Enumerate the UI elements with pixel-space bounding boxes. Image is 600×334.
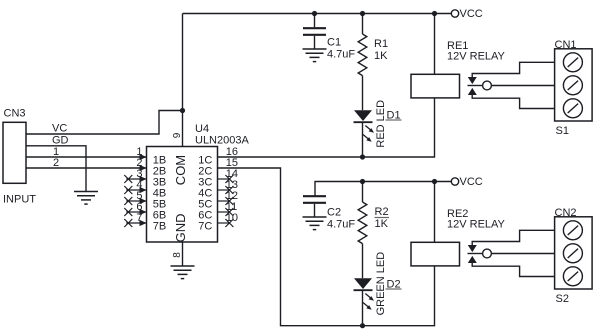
svg-text:7C: 7C <box>198 221 212 233</box>
svg-text:R2: R2 <box>375 206 389 218</box>
svg-text:12V RELAY: 12V RELAY <box>447 219 506 231</box>
wire VCC rail 1 <box>183 13 452 15</box>
wire stub pin 7 (n/c) <box>126 222 146 224</box>
relay RE2 pole circle <box>483 249 492 258</box>
ground (GD net) <box>74 192 98 205</box>
no-connect X pin 11 <box>225 208 233 216</box>
svg-text:8: 8 <box>172 252 183 258</box>
junction RE2 coil/rail2 <box>432 179 437 184</box>
no-connect X pin 7 <box>124 219 132 227</box>
ground (C2) <box>303 217 327 230</box>
no-connect X pin 6 <box>124 208 132 216</box>
wire pin 15 output (2C to RE2 coil) <box>218 168 435 326</box>
no-connect X pin 12 <box>225 197 233 205</box>
svg-text:COM: COM <box>173 155 188 185</box>
svg-text:GREEN LED: GREEN LED <box>375 252 387 316</box>
wire stub pin 13 (n/c) <box>218 189 230 191</box>
svg-text:S1: S1 <box>556 125 569 137</box>
wire rail1 to R1 <box>362 14 364 35</box>
junction RE1 coil/rail1 <box>432 11 437 16</box>
power terminal VCC 2 <box>451 178 458 185</box>
relay RE1 pole circle <box>483 81 492 90</box>
junction D1/pin16 wire <box>360 154 365 159</box>
wire input 2 (CN3 to pin 2) <box>26 167 147 169</box>
relay RE2 NO contact arrow <box>468 256 477 263</box>
svg-text:VC: VC <box>52 123 67 135</box>
wire rail1 to RE1 coil <box>434 14 436 75</box>
wire GD net (CN3 to ground) <box>26 146 86 192</box>
svg-text:GND: GND <box>173 214 188 243</box>
pin arrow left 2 <box>140 165 147 171</box>
ground (U4 pin 8) <box>171 266 195 279</box>
wire RE1 NO contact to CN1 pin 3 <box>472 94 554 108</box>
svg-text:S2: S2 <box>556 293 569 305</box>
pin arrow left 6 <box>140 209 147 215</box>
connector CN1 body <box>555 49 593 121</box>
wire C2 to ground <box>314 204 316 217</box>
svg-text:CN2: CN2 <box>555 207 577 219</box>
pin arrow left 3 <box>140 176 147 182</box>
connector CN2 body <box>555 217 593 289</box>
svg-text:ULN2003A: ULN2003A <box>195 135 249 147</box>
label R2 underline <box>375 217 390 219</box>
CN2 screw terminal 2 <box>563 244 582 263</box>
junction pin9/VC <box>180 108 185 113</box>
svg-text:C2: C2 <box>327 207 341 219</box>
LED D1 emission arrows <box>363 126 374 142</box>
svg-text:RED LED: RED LED <box>375 100 387 148</box>
CN1 screw terminal 1 <box>563 53 582 72</box>
relay RE2 NC contact arrow <box>468 245 477 252</box>
resistor R2 zigzag <box>358 202 367 244</box>
pin arrow left 1 <box>140 154 147 160</box>
wire stub pin 4 (n/c) <box>126 189 146 191</box>
pin arrow left 7 <box>140 220 147 226</box>
svg-text:U4: U4 <box>195 123 209 135</box>
svg-text:1K: 1K <box>374 50 388 62</box>
wire pin 9 (COM supply) <box>182 14 184 147</box>
LED D2 cathode bar <box>354 289 373 291</box>
relay RE1 NC contact arrow <box>468 77 477 84</box>
op IC U4 body <box>147 147 218 243</box>
svg-text:VCC: VCC <box>460 8 483 20</box>
wire RE2 NC contact to CN2 pin 1 <box>472 230 554 246</box>
pin arrow left 5 <box>140 198 147 204</box>
wire stub pin 14 (n/c) <box>218 178 230 180</box>
resistor R1 zigzag <box>358 34 367 76</box>
ground (C1) <box>303 49 327 62</box>
wire stub pin 12 (n/c) <box>218 200 230 202</box>
wire pin 16 output (1C to RE1 coil) <box>218 98 435 157</box>
wire stub pin 3 (n/c) <box>126 178 146 180</box>
label D2 underline <box>386 288 402 290</box>
wire rail1 to C1 <box>314 14 316 28</box>
CN2 screw terminal 3 <box>563 267 582 286</box>
svg-text:7B: 7B <box>153 221 166 233</box>
relay RE1 coil <box>411 74 460 98</box>
wire RE2 NO contact to CN2 pin 3 <box>472 262 554 276</box>
LED D1 triangle <box>354 110 372 121</box>
svg-text:2: 2 <box>53 157 59 169</box>
wire stub pin 5 (n/c) <box>126 200 146 202</box>
wire rail2 to R2 <box>362 182 364 203</box>
svg-text:4.7uF: 4.7uF <box>327 49 355 61</box>
no-connect X pin 5 <box>124 197 132 205</box>
wire D2 to output net <box>362 290 364 326</box>
wire RE1 NC contact to CN1 pin 1 <box>472 62 554 78</box>
wire R2 to D2 <box>362 244 364 279</box>
junction D2/pin15 wire <box>360 323 365 328</box>
LED D2 emission arrows <box>363 294 374 310</box>
CN2 screw terminal 1 <box>563 221 582 240</box>
CN1 screw terminal 2 <box>563 76 582 95</box>
wire input 1 (CN3 to pin 1) <box>26 156 147 158</box>
wire VCC rail 2 <box>315 182 451 197</box>
svg-text:CN3: CN3 <box>4 108 26 120</box>
capacitor C1 plates <box>303 28 326 35</box>
svg-text:12V RELAY: 12V RELAY <box>447 51 506 63</box>
svg-text:4.7uF: 4.7uF <box>327 219 355 231</box>
label D1 underline <box>386 119 402 121</box>
no-connect X pin 14 <box>225 175 233 183</box>
relay RE2 coil <box>411 242 460 266</box>
svg-text:C1: C1 <box>327 37 341 49</box>
relay RE1 pole blade <box>468 85 483 87</box>
wire stub pin 10 (n/c) <box>218 222 230 224</box>
no-connect X pin 13 <box>225 186 233 194</box>
wire RE2 pole to CN2 pin 2 <box>491 253 554 255</box>
no-connect X pin 3 <box>124 175 132 183</box>
power terminal VCC 1 <box>451 10 458 17</box>
svg-text:GD: GD <box>52 134 69 146</box>
svg-text:CN1: CN1 <box>555 39 577 51</box>
svg-text:R1: R1 <box>374 38 388 50</box>
capacitor C2 plates <box>303 196 326 203</box>
junction R2/rail2 <box>360 179 365 184</box>
no-connect X pin 10 <box>225 219 233 227</box>
svg-text:1K: 1K <box>375 218 389 230</box>
LED D2 triangle <box>354 278 372 289</box>
wire VC net (CN3 to COM node) <box>26 111 183 135</box>
no-connect X pin 4 <box>124 186 132 194</box>
relay RE1 NO contact arrow <box>468 88 477 95</box>
svg-text:VCC: VCC <box>460 176 483 188</box>
wire rail2 to RE2 coil <box>434 182 436 243</box>
svg-text:9: 9 <box>172 132 183 138</box>
pin arrow left 4 <box>140 187 147 193</box>
svg-text:INPUT: INPUT <box>3 194 36 206</box>
junction R1/rail1 <box>360 11 365 16</box>
junction C1/rail1 <box>312 11 317 16</box>
relay RE2 pole blade <box>468 253 483 255</box>
LED D1 cathode bar <box>354 121 373 123</box>
wire stub pin 6 (n/c) <box>126 211 146 213</box>
CN1 screw terminal 3 <box>563 99 582 118</box>
wire C1 to ground <box>314 36 316 49</box>
wire stub pin 11 (n/c) <box>218 211 230 213</box>
wire R1 to D1 <box>362 76 364 111</box>
wire pin 8 to ground <box>182 242 184 266</box>
wire RE1 pole to CN1 pin 2 <box>491 85 554 87</box>
wire D1 to output net <box>362 122 364 157</box>
connector CN3 body <box>3 122 26 183</box>
